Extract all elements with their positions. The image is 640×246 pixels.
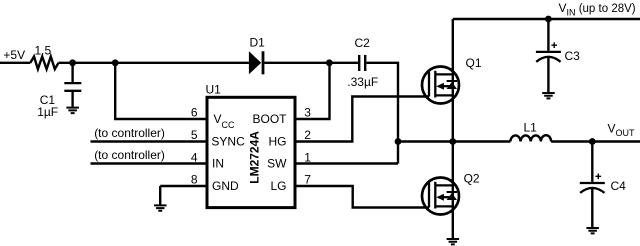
capacitor C4	[580, 174, 626, 194]
ground C4	[586, 228, 599, 233]
ground C3	[542, 93, 555, 98]
wire Q2 drain-source vertical	[452, 142, 454, 239]
wire VIN top rail	[453, 18, 640, 20]
svg-text:C4: C4	[611, 179, 627, 193]
svg-text:2: 2	[304, 128, 311, 142]
wire HG pin 2 to Q1 gate	[296, 97, 429, 142]
svg-text:SYNC: SYNC	[211, 135, 245, 149]
transistor Q2	[422, 172, 480, 215]
svg-text:GND: GND	[212, 179, 239, 193]
svg-text:U1: U1	[206, 83, 222, 97]
svg-text:L1: L1	[524, 120, 538, 134]
capacitor C2 .33uF	[347, 36, 378, 89]
svg-text:HG: HG	[269, 135, 287, 149]
node junction dot BOOT	[326, 59, 333, 66]
node junction dot SW-FETs	[449, 138, 456, 145]
svg-text:C2: C2	[355, 36, 371, 50]
transistor Q1	[422, 56, 482, 103]
wire Q1 drain-source vertical	[452, 19, 454, 142]
wire VCC pin 6	[115, 63, 207, 119]
inductor L1	[510, 120, 551, 141]
svg-text:(to controller): (to controller)	[94, 148, 165, 162]
svg-text:6: 6	[191, 105, 198, 119]
wire GND pin 8	[160, 186, 207, 205]
svg-text:LG: LG	[270, 179, 286, 193]
svg-text:3: 3	[304, 105, 311, 119]
wire SW pin 1	[296, 162, 398, 164]
svg-text:BOOT: BOOT	[252, 112, 287, 126]
wire +5V input lead	[0, 62, 30, 64]
wire SYNC pin 5	[91, 140, 208, 142]
diode D1	[249, 36, 265, 75]
op-amp U1 LM2724A regulator IC box	[206, 83, 296, 208]
wire C3 top lead	[547, 19, 549, 51]
svg-text:5: 5	[191, 128, 198, 142]
wire C2 right to SW node vertical	[366, 63, 398, 164]
ground pin 8	[154, 205, 167, 210]
resistor R 1.5	[30, 44, 58, 70]
wire IN pin 4	[91, 162, 208, 164]
svg-text:.33µF: .33µF	[347, 75, 378, 89]
node junction dot C1 tap	[69, 59, 76, 66]
wire diode cathode to C2	[264, 62, 358, 64]
wire BOOT pin 3	[296, 63, 330, 119]
node junction dot VCC tap	[112, 59, 119, 66]
ground Q2 source	[447, 239, 460, 244]
wire C1 top lead	[71, 63, 73, 82]
wire C4 top lead	[591, 142, 593, 182]
node junction dot VOUT-C4	[589, 138, 596, 145]
node junction dot SW-C2	[395, 138, 402, 145]
wire resistor to diode anode	[59, 62, 249, 64]
capacitor C3	[536, 42, 580, 63]
svg-text:7: 7	[304, 173, 311, 187]
wire C3 bottom lead	[547, 58, 549, 93]
svg-text:1µF: 1µF	[37, 105, 58, 119]
svg-text:IN: IN	[212, 157, 224, 171]
svg-text:8: 8	[191, 173, 198, 187]
svg-text:Q1: Q1	[466, 56, 482, 70]
wire C4 bottom lead	[591, 189, 593, 228]
svg-text:LM2724A: LM2724A	[248, 131, 262, 184]
wire C1 bottom lead	[71, 92, 73, 107]
svg-text:Q2: Q2	[464, 172, 480, 186]
svg-text:SW: SW	[267, 157, 287, 171]
svg-text:D1: D1	[250, 36, 266, 50]
wire LG pin 7 to Q2 gate	[296, 186, 429, 208]
wire SW node rail	[398, 140, 640, 142]
svg-text:4: 4	[191, 150, 198, 164]
ground C1	[66, 108, 79, 114]
capacitor C1 1uF	[37, 83, 81, 119]
svg-text:1.5: 1.5	[35, 44, 52, 58]
svg-text:C3: C3	[565, 49, 581, 63]
svg-text:+5V: +5V	[3, 48, 25, 62]
svg-text:(to controller): (to controller)	[94, 126, 165, 140]
node junction dot VIN-C3	[545, 16, 552, 23]
svg-text:1: 1	[304, 150, 311, 164]
